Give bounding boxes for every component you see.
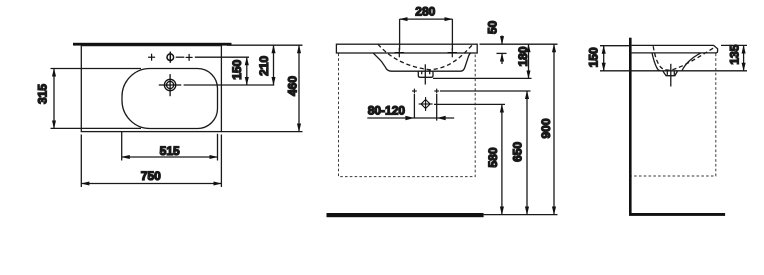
dim 315 line	[53, 69, 55, 129]
drain trap (side)	[663, 71, 678, 76]
bowl profile left (side)	[652, 53, 661, 71]
dim 750 extension lines	[80, 135, 82, 188]
top edge extension line (to 900)	[480, 43, 558, 45]
drain centerline (side)	[670, 64, 672, 87]
dim 750 line	[81, 183, 221, 185]
svg-text:135: 135	[728, 44, 742, 64]
hidden furniture box (front, dashed)	[339, 54, 476, 177]
wall bar (plan, back edge)	[73, 43, 232, 46]
svg-text:750: 750	[141, 169, 161, 183]
hidden bowl interior (dashed, side)	[653, 46, 714, 70]
slab profile (side)	[632, 45, 718, 53]
basin bowl (plan rounded rect)	[122, 69, 218, 129]
svg-text:210: 210	[257, 55, 271, 75]
svg-text:150: 150	[587, 47, 601, 67]
dim 280 line	[400, 18, 453, 20]
svg-text:50: 50	[486, 20, 500, 34]
dim 515 line	[122, 156, 218, 158]
svg-text:650: 650	[511, 141, 525, 161]
waste zone vertical left	[413, 94, 415, 118]
drain trap ticks (side)	[666, 71, 668, 75]
washbasin outer rectangle (plan)	[81, 46, 221, 132]
bowl bottom line with extensions (side)	[600, 70, 747, 72]
svg-text:80-120: 80-120	[368, 104, 406, 118]
bowl profile right (side)	[682, 53, 701, 71]
hidden furniture box (side, dashed)	[632, 54, 716, 177]
dim 50 outside arrows	[501, 36, 503, 45]
floor line (side)	[629, 213, 725, 216]
waste outlet position symbol (diamond)	[419, 97, 433, 111]
tap hole symbol	[167, 52, 174, 63]
waste symbol extension line (to 580)	[434, 103, 505, 105]
dim 50 lower extension line	[497, 52, 507, 54]
tap centerline plus mark right	[186, 54, 193, 61]
dim 210 extension line top	[227, 44, 303, 46]
svg-text:900: 900	[539, 118, 553, 138]
front slab outline	[336, 44, 477, 53]
dim 280 extension lines	[399, 19, 401, 50]
drain symbol (plan)	[159, 74, 182, 96]
waste zone plus mark right	[434, 89, 439, 94]
bowl silhouette (front)	[373, 53, 471, 71]
dim 460 extension line bottom	[222, 131, 303, 133]
dim 900 line	[553, 44, 555, 214]
drain centerline (front)	[424, 64, 426, 84]
dim 210 line	[273, 45, 275, 85]
fixing hole cross right	[448, 48, 457, 57]
svg-text:580: 580	[486, 147, 500, 167]
drain centerline extension to dims	[184, 84, 275, 86]
dim 135 extension line top	[721, 44, 747, 46]
dim 180 extension line bottom	[433, 77, 532, 79]
dim 150 extension line (side)	[600, 45, 629, 47]
drain trap inner ticks	[421, 71, 423, 74]
floor extension line	[484, 214, 558, 216]
dim 460 line	[298, 45, 300, 131]
dim 180 line	[528, 44, 530, 78]
drain trap box (front)	[418, 71, 433, 77]
fixing holes extension line (to 650)	[440, 90, 531, 92]
hidden bowl rim (dashed arc, front)	[378, 44, 473, 70]
svg-text:460: 460	[286, 76, 300, 96]
svg-text:150: 150	[230, 59, 244, 79]
floor line (front)	[327, 213, 484, 217]
tap centerline dashes to 150 dim	[176, 56, 185, 58]
dim 80-120 line with inward arrows	[367, 117, 454, 119]
dim 315 extension lines	[51, 68, 142, 70]
svg-text:315: 315	[36, 84, 50, 104]
dim 150 line (side)	[603, 46, 605, 71]
tap centerline plus mark left	[148, 54, 155, 61]
svg-text:280: 280	[415, 5, 435, 19]
dim 515 extension lines	[121, 131, 123, 161]
dim 135 line	[743, 45, 745, 70]
dim 150 line (plan)	[246, 57, 248, 85]
dim 650 line	[526, 91, 528, 215]
waste zone plus mark left	[412, 89, 417, 94]
fixing hole cross left	[395, 48, 404, 57]
svg-text:180: 180	[516, 46, 530, 66]
dim 580 line	[501, 104, 503, 214]
wall line (side)	[629, 38, 632, 215]
waste zone vertical right	[436, 94, 438, 121]
svg-text:515: 515	[160, 144, 180, 158]
